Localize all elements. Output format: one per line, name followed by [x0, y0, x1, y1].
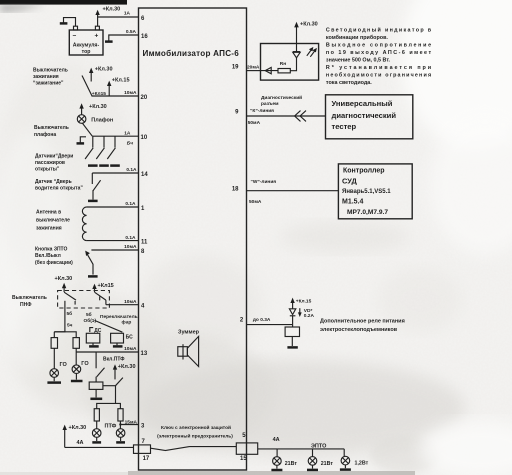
svg-text:выключателе: выключателе — [36, 218, 70, 224]
fuse F1 — [51, 338, 57, 349]
arrowhead into box — [265, 67, 271, 73]
LED emission arrows — [307, 47, 317, 57]
supply arrow +Кл.30 ПТФ switch — [113, 364, 117, 379]
svg-text:Январь5.1,VS5.1: Январь5.1,VS5.1 — [342, 189, 391, 195]
ground lamp EL7 — [307, 465, 318, 470]
svg-text:Контроллер: Контроллер — [343, 168, 385, 175]
ground lamp EL2 — [47, 377, 61, 382]
lamp EL1 plafond — [77, 115, 86, 124]
svg-text:Вкл./Выкл: Вкл./Выкл — [35, 253, 61, 259]
wire left fuse drop — [53, 332, 55, 338]
lamp EL4 ПТФ — [92, 429, 101, 438]
svg-text:15мА: 15мА — [125, 419, 138, 425]
wire electronic key switch — [151, 448, 166, 450]
svg-text:Универсальный: Универсальный — [332, 99, 393, 108]
wire pin 20 — [92, 95, 139, 97]
svg-text:17: 17 — [143, 456, 150, 462]
svg-text:зажигания: зажигания — [36, 226, 62, 232]
svg-text:5ч: 5ч — [67, 323, 73, 329]
terminal X17 box — [134, 445, 151, 454]
supply arrow +Кл.30 ignition — [89, 68, 93, 82]
fuse F4 ПТФ — [118, 409, 123, 421]
wire pin 19 to LED box — [247, 70, 262, 72]
svg-text:+Кл.15: +Кл.15 — [296, 298, 312, 304]
svg-text:+Кл15: +Кл15 — [98, 283, 114, 289]
svg-text:−: − — [73, 33, 77, 40]
svg-text:21Вт: 21Вт — [321, 461, 334, 467]
bottom page-edge shading — [0, 472, 128, 475]
fuse F2 — [73, 338, 79, 349]
switch S7 electronic key blade — [165, 447, 190, 451]
wire lamp drop 1 — [276, 449, 278, 457]
svg-text:VD*: VD* — [304, 308, 313, 314]
label ДС with bracket — [90, 328, 102, 334]
switch S1 ignition blade — [82, 76, 92, 97]
wire lamp drop 2 — [312, 449, 314, 457]
svg-text:+: + — [95, 33, 99, 40]
svg-text:водителя открыта”: водителя открыта” — [35, 186, 83, 192]
svg-text:Бч: Бч — [127, 141, 133, 147]
svg-text:“К”-линия: “К”-линия — [250, 108, 274, 114]
svg-text:ПТФ: ПТФ — [105, 424, 117, 430]
supply arrow +Кл.30 ПНФ — [62, 283, 66, 292]
wire pin 18 W-line — [247, 190, 339, 192]
svg-text:значение 500 Ом, 0,5 Вт.: значение 500 Ом, 0,5 Вт. — [326, 57, 391, 63]
ground plafond switch — [77, 137, 87, 144]
svg-text:+Кл.30: +Кл.30 — [95, 67, 113, 73]
svg-text:разъем: разъем — [261, 102, 279, 107]
svg-text:М1.5.4: М1.5.4 — [342, 198, 364, 205]
svg-text:R* устанавливается при: R* устанавливается при — [326, 65, 431, 71]
wire pin 1 — [87, 206, 139, 208]
svg-text:5б: 5б — [86, 311, 92, 318]
door sensor SW2 — [96, 136, 109, 165]
svg-text:(без фиксации): (без фиксации) — [35, 259, 73, 266]
relay K4 additional — [285, 327, 299, 337]
svg-text:16: 16 — [141, 34, 148, 40]
contact S4.1 — [64, 292, 76, 308]
svg-text:Плафон: Плафон — [91, 116, 113, 123]
svg-text:Датчики“Двери: Датчики“Двери — [35, 154, 73, 160]
svg-text:плафона: плафона — [34, 131, 56, 138]
svg-text:4А: 4А — [77, 440, 84, 446]
wire pin 11 — [87, 240, 139, 242]
svg-text:Дополнительное реле питания: Дополнительное реле питания — [320, 318, 405, 324]
wire to terminal 15 — [190, 446, 237, 448]
lamp EL3 ГО — [72, 365, 81, 374]
lamp EL6 21Вт — [273, 457, 282, 466]
svg-text:+Кл.30: +Кл.30 — [103, 7, 121, 13]
wire pin 14 — [92, 172, 138, 174]
svg-text:18: 18 — [232, 186, 239, 192]
wire battery minus to ground — [64, 18, 76, 27]
controller box СУД — [338, 164, 412, 219]
top-left corner smudge — [0, 5, 46, 12]
supply arrow +Кл.30 LED — [294, 22, 299, 52]
supply arrow +Кл.30 battery — [95, 10, 99, 26]
supply arrow +Кл.30 bottom bus — [63, 425, 67, 448]
immobilizer unit U1 box АПС-6 — [139, 8, 247, 470]
svg-text:1,2Вт: 1,2Вт — [355, 460, 369, 466]
relay K2 БС — [111, 333, 124, 343]
label: Универсальный диагностический тестер — [332, 99, 397, 131]
buzzer BZ1 — [178, 336, 199, 366]
svg-text:тор: тор — [82, 49, 91, 55]
ground lamp EL5 — [116, 437, 125, 442]
text block LED description — [326, 26, 432, 86]
svg-text:Выключатель: Выключатель — [34, 125, 69, 131]
svg-text:Выключатель: Выключатель — [33, 68, 68, 74]
ground lamp EL6 — [271, 465, 282, 470]
svg-text:15: 15 — [240, 456, 247, 462]
svg-text:Датчик “Дверь: Датчик “Дверь — [35, 179, 72, 185]
switch block S4 dashed box — [58, 291, 110, 309]
relay K1 ДС — [86, 333, 100, 343]
svg-text:“W”-линия: “W”-линия — [251, 179, 277, 185]
LED VD1 — [293, 52, 300, 58]
ground relay K4 — [287, 337, 297, 348]
svg-text:13: 13 — [141, 351, 148, 357]
svg-text:Зуммер: Зуммер — [178, 330, 200, 336]
svg-text:МР7.0,М7.9.7: МР7.0,М7.9.7 — [347, 209, 388, 216]
top-left black border bar — [0, 0, 127, 5]
svg-text:11: 11 — [141, 239, 148, 245]
svg-text:открыты”: открыты” — [35, 167, 60, 173]
svg-text:комбинации приборов.: комбинации приборов. — [326, 34, 388, 41]
svg-text:0.2А: 0.2А — [304, 313, 315, 319]
relay K3 ПТФ coil — [89, 382, 103, 389]
contact S4.2 — [95, 292, 106, 305]
wire fuse F2 to lamp — [75, 348, 77, 365]
wire pin 6 — [98, 16, 139, 18]
svg-text:20мА: 20мА — [247, 65, 260, 71]
ground battery minus — [60, 22, 68, 25]
ground pin 16 wire — [105, 40, 113, 43]
LED indicator box — [261, 44, 319, 81]
svg-text:+Кл.30: +Кл.30 — [69, 425, 87, 431]
svg-text:0.1А: 0.1А — [126, 167, 137, 173]
wire pin 3 — [120, 424, 138, 426]
svg-text:Иммобилизатор АПС-6: Иммобилизатор АПС-6 — [143, 49, 240, 58]
door sensor SW1 — [85, 136, 98, 165]
wire pin2 junction to relay — [292, 325, 294, 327]
wire relay to switch S6 — [103, 385, 116, 387]
wire terminal 15 out — [258, 448, 277, 450]
wire lamp drop 3 — [343, 449, 345, 457]
diode VD* — [289, 309, 295, 325]
svg-text:фар: фар — [122, 318, 132, 325]
svg-text:Rн: Rн — [280, 61, 286, 67]
wire pin 2 — [247, 324, 293, 326]
ground lamp EL4 — [92, 437, 101, 442]
svg-text:тока светодиода.: тока светодиода. — [326, 80, 372, 86]
svg-text:10мА: 10мА — [124, 90, 137, 96]
svg-text:Переключатель: Переключатель — [100, 314, 138, 320]
svg-text:4А: 4А — [273, 437, 280, 443]
svg-text:10мА: 10мА — [124, 244, 137, 250]
wire resistor to LED — [290, 58, 296, 71]
svg-text:пассажиров: пассажиров — [35, 160, 65, 166]
svg-text:50мА: 50мА — [249, 199, 262, 205]
lamp EL8 1,2Вт — [341, 456, 350, 465]
ground relay K1 — [89, 343, 99, 346]
svg-text:Кнопка ЗПТО: Кнопка ЗПТО — [35, 247, 67, 253]
svg-text:10: 10 — [141, 135, 148, 141]
svg-text:ГО: ГО — [81, 361, 89, 367]
svg-text:20: 20 — [141, 95, 148, 101]
svg-text:Аккумуля-: Аккумуля- — [73, 43, 100, 49]
wire ПНФ feed down — [54, 308, 65, 332]
svg-text:Светодиодный индикатор в: Светодиодный индикатор в — [326, 26, 432, 33]
wire pin 9 K-line — [247, 115, 326, 117]
svg-text:10мА: 10мА — [124, 299, 137, 305]
svg-text:0.1А: 0.1А — [125, 201, 136, 207]
wire F3 to lamp — [96, 421, 98, 429]
ground lamp EL8 — [340, 465, 351, 470]
svg-text:+Кл.15: +Кл.15 — [112, 78, 130, 84]
switch S6 blade — [116, 378, 123, 386]
connector chevrons — [295, 111, 306, 122]
lamp EL7 21Вт — [308, 457, 317, 466]
svg-text:ПНФ: ПНФ — [20, 302, 32, 308]
wire pin 13 — [76, 351, 138, 353]
wire ЭПТО bus — [277, 448, 344, 450]
fuse F3 ПТФ — [94, 409, 99, 421]
svg-text:ГО: ГО — [60, 362, 68, 368]
terminal X15 box — [236, 443, 257, 454]
ground relay K2 — [113, 343, 123, 346]
svg-text:до 0.3А: до 0.3А — [253, 317, 271, 323]
svg-text:1А: 1А — [124, 130, 131, 136]
svg-text:“зажигание”: “зажигание” — [33, 81, 64, 87]
wire fuse F1 to lamp — [53, 348, 55, 368]
svg-text:14: 14 — [141, 172, 148, 178]
wire ПТФ fuse bus — [97, 403, 121, 408]
svg-text:Диагностический: Диагностический — [261, 94, 302, 101]
current arrow 0.2A — [298, 308, 302, 317]
ground relay K3 — [90, 389, 102, 398]
wire pin 16 — [109, 35, 139, 41]
label: Контроллер СУД — [342, 168, 391, 216]
svg-text:Антенна в: Антенна в — [36, 210, 61, 216]
svg-text:+Кл.30: +Кл.30 — [300, 21, 318, 27]
svg-text:5б: 5б — [67, 310, 73, 317]
wire pin 10 bus — [92, 135, 138, 137]
svg-text:+Кл.30: +Кл.30 — [118, 364, 136, 370]
svg-text:БС: БС — [126, 334, 134, 340]
lamp EL2 ГО — [50, 369, 59, 378]
svg-text:зажигания: зажигания — [33, 74, 59, 80]
svg-text:Выключатель: Выключатель — [12, 295, 47, 301]
wire pin 8 — [91, 249, 138, 251]
wire LED internal left — [261, 70, 278, 72]
svg-text:+Кл.30: +Кл.30 — [89, 104, 107, 110]
supply arrow +Кл15 ПНФ — [92, 284, 96, 292]
resistor R* Rн — [278, 69, 290, 73]
svg-text:10мА: 10мА — [124, 346, 137, 352]
svg-text:0.5А: 0.5А — [126, 29, 137, 35]
antenna coil L1 — [82, 207, 86, 241]
push button S3 ЗПТО — [85, 251, 97, 277]
diagnostic tester box — [326, 95, 413, 139]
svg-text:Ключ с электронной защитой: Ключ с электронной защитой — [161, 424, 231, 431]
svg-text:+Кл.30: +Кл.30 — [55, 276, 73, 282]
switch S5 ПТФ feed — [96, 352, 104, 382]
svg-text:0.1А: 0.1А — [125, 235, 136, 241]
wire fuse bus — [54, 332, 76, 338]
svg-text:тестер: тестер — [332, 122, 357, 131]
node pin3 junction — [119, 423, 121, 425]
battery GB1 — [69, 26, 103, 55]
supply arrow +Кл.15 relay — [290, 298, 294, 309]
switch blade to БС — [95, 320, 123, 332]
svg-text:19: 19 — [232, 64, 239, 70]
svg-text:необходимости ограничения: необходимости ограничения — [326, 71, 431, 78]
svg-text:Вкл.ПТФ: Вкл.ПТФ — [103, 356, 125, 362]
switch S2 plafond blade — [82, 123, 92, 136]
ground lamp EL3 — [71, 374, 83, 382]
svg-text:21Вт: 21Вт — [285, 461, 298, 467]
svg-text:50мА: 50мА — [248, 120, 261, 126]
wire pin 7 bus — [65, 446, 134, 448]
door sensor SW3 — [107, 136, 120, 165]
lamp EL5 ПТФ — [116, 429, 125, 438]
supply arrow +Кл.15 — [107, 81, 111, 96]
wire S6 down to fuse bus — [115, 386, 117, 404]
door sensor SW4 driver — [88, 173, 101, 201]
svg-text:электростеклоподъемников: электростеклоподъемников — [320, 327, 398, 333]
supply arrow +Кл.30 plafond — [79, 103, 83, 114]
wire pin 4 — [106, 304, 139, 306]
svg-text:диагностический: диагностический — [332, 111, 397, 120]
svg-text:1А: 1А — [124, 11, 131, 17]
wire F4 to lamp and pin3 junction — [119, 421, 121, 429]
svg-text:(электронный предохранитель): (электронный предохранитель) — [157, 433, 233, 440]
svg-text:СУД: СУД — [342, 176, 357, 185]
